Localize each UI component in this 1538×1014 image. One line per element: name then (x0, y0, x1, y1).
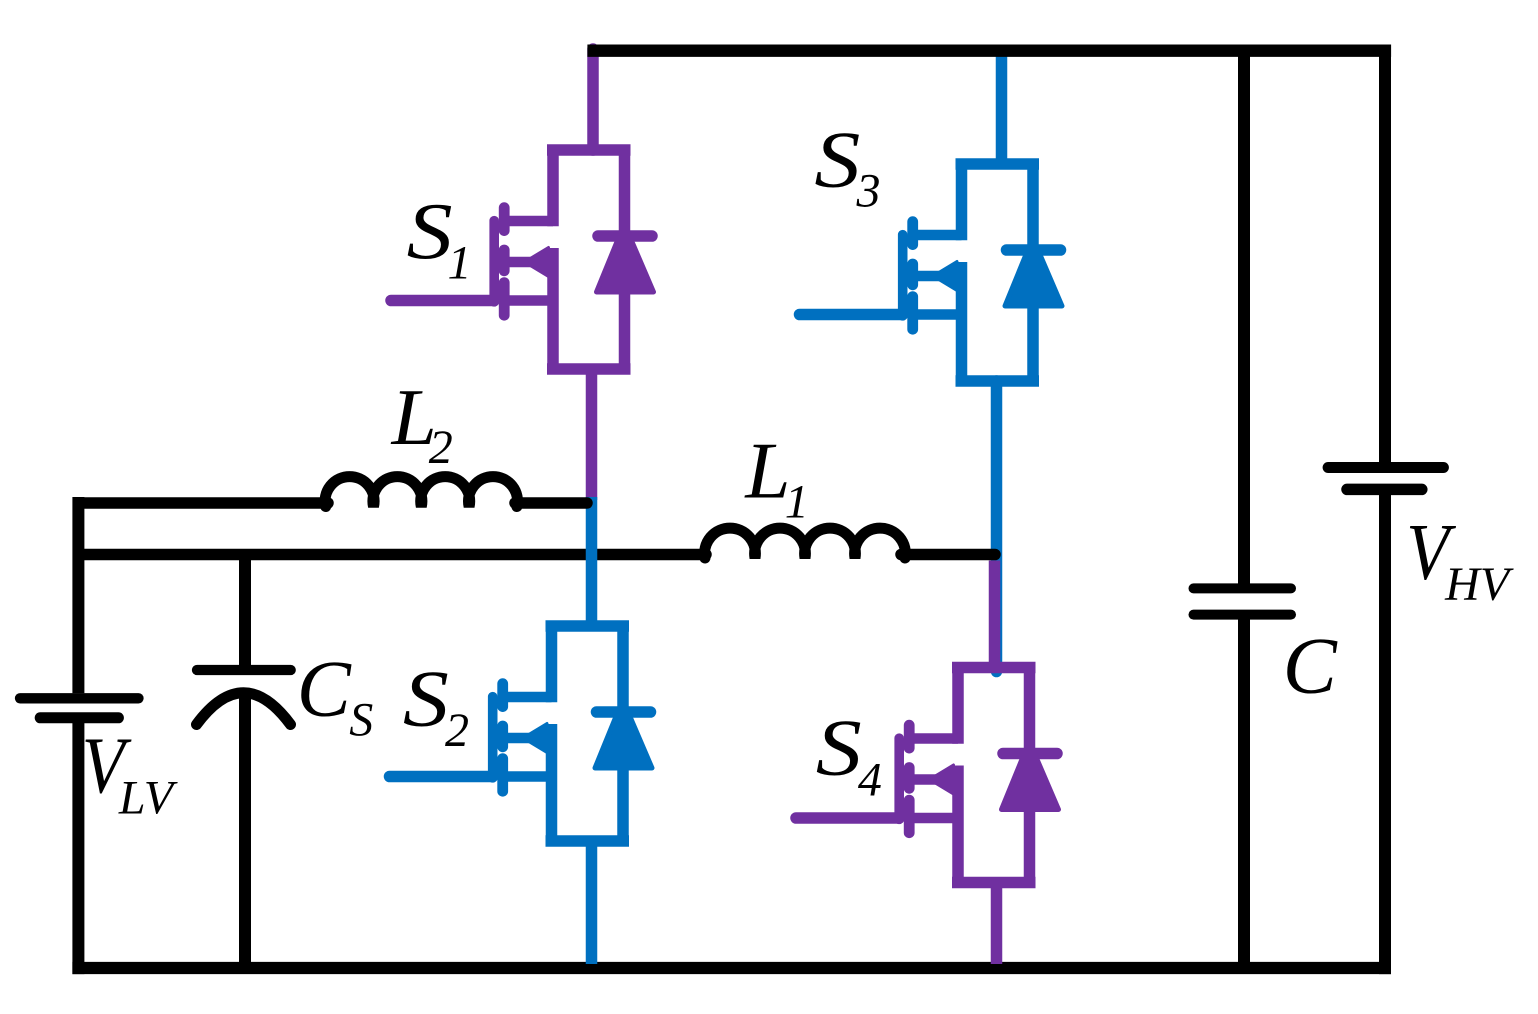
capacitor Cs curved plate (197, 693, 291, 725)
source lead (913, 309, 962, 319)
inductor L1 (705, 528, 906, 558)
channel stub B (907, 264, 918, 285)
channel stub A (904, 725, 915, 748)
diode branch vertical (1027, 163, 1039, 382)
source vertical (956, 262, 968, 382)
svg-text:S: S (814, 114, 860, 204)
wire node A to S2 drain (blue) (586, 497, 598, 626)
channel stub A (907, 222, 918, 245)
capacitor C plate 1 (1194, 583, 1292, 593)
wire capacitor C branch lower (1238, 615, 1250, 968)
wire top rail to S3 drain (blue) (996, 51, 1008, 164)
gate wire (390, 771, 493, 783)
top bar (956, 158, 1040, 170)
body arrow (913, 271, 960, 281)
body arrow (909, 774, 956, 784)
svg-text:1: 1 (448, 237, 472, 290)
gate bar (894, 738, 904, 819)
diode triangle (1002, 761, 1059, 810)
source lead (909, 813, 958, 823)
channel stub C (497, 759, 508, 792)
svg-text:2: 2 (429, 421, 453, 474)
transistor S2 (MOSFET with body diode) (390, 625, 653, 842)
top bar (952, 662, 1036, 674)
gate wire (800, 309, 903, 321)
diode cathode bar (1007, 244, 1061, 256)
gate bar (488, 697, 498, 778)
wire upper line (V_LV to L2) (78, 497, 328, 509)
wire top rail to S1 drain (purple) (587, 49, 599, 150)
body arrow (504, 257, 551, 267)
source vertical (952, 766, 964, 884)
wire S1 source to node A (purple) (586, 369, 598, 500)
svg-text:C: C (297, 644, 352, 734)
source vertical (546, 724, 558, 842)
transistor S4 (MOSFET with body diode) (796, 667, 1059, 884)
gate wire (391, 295, 494, 307)
svg-text:C: C (1283, 621, 1338, 711)
channel stub C (904, 800, 915, 833)
diode cathode bar (597, 706, 651, 718)
bottom rail (72, 962, 1391, 974)
channel stub B (904, 768, 915, 789)
diode triangle (595, 719, 652, 768)
svg-text:LV: LV (118, 771, 178, 824)
wire S4 source to bottom rail (purple) (991, 883, 1003, 965)
gate bar (898, 235, 908, 316)
diode branch vertical (617, 625, 629, 842)
top bar (547, 144, 631, 156)
source lead (503, 771, 552, 781)
channel stub B (497, 726, 508, 747)
battery V_LV long plate (20, 693, 139, 703)
wire node B to S4 drain (purple) (989, 561, 1001, 668)
transistor S3 (MOSFET with body diode) (800, 163, 1063, 382)
body arrow (503, 733, 550, 743)
drain vertical and lead (547, 149, 559, 226)
channel stub C (907, 297, 918, 330)
drain vertical and lead (952, 667, 964, 744)
channel stub B (499, 250, 510, 271)
svg-text:S: S (403, 653, 449, 743)
diode triangle (597, 243, 654, 292)
svg-text:HV: HV (1444, 558, 1514, 611)
diode branch vertical (619, 149, 631, 370)
svg-text:S: S (816, 703, 862, 793)
wire S2 source to bottom rail (blue) (586, 841, 598, 964)
svg-text:1: 1 (785, 476, 809, 529)
gate wire (796, 812, 899, 824)
capacitor C plate 2 (1194, 610, 1292, 620)
channel stub C (499, 283, 510, 316)
wire L2 to node A (515, 497, 587, 509)
wire S3 source to node B (blue, under L1 line) (991, 381, 1003, 672)
bottom bar (547, 363, 631, 375)
bottom bar (956, 375, 1040, 387)
diode cathode bar (598, 230, 652, 242)
diode triangle (1005, 257, 1062, 306)
svg-text:3: 3 (856, 165, 881, 218)
channel stub A (499, 208, 510, 231)
inductor L2 (325, 477, 517, 507)
bottom bar (952, 877, 1036, 889)
top rail (587, 45, 1391, 57)
diode branch vertical (1024, 667, 1036, 884)
svg-text:4: 4 (858, 754, 882, 807)
wire L1 to node B (901, 549, 995, 561)
transistor S1 (MOSFET with body diode) (391, 149, 654, 370)
source lead (504, 295, 553, 305)
right vertical wire (V_HV branch) (1379, 45, 1391, 975)
left vertical wire (V_LV branch) (72, 497, 84, 974)
battery V_HV short plate (1347, 484, 1422, 496)
wire capacitor C branch upper (1238, 51, 1250, 588)
top bar (546, 620, 630, 632)
drain vertical and lead (956, 163, 968, 240)
svg-text:S: S (407, 186, 453, 276)
wire Cs branch upper (239, 555, 251, 670)
wire lower line (V_LV to L1) (78, 549, 706, 561)
wire Cs branch lower (239, 694, 251, 968)
battery V_HV long plate (1328, 462, 1443, 473)
source vertical (547, 248, 559, 370)
diode cathode bar (1003, 748, 1057, 760)
bottom bar (546, 835, 630, 847)
svg-text:L: L (744, 426, 790, 516)
svg-text:S: S (349, 694, 373, 747)
capacitor Cs flat plate (197, 665, 291, 675)
svg-text:2: 2 (445, 704, 469, 757)
drain vertical and lead (546, 625, 558, 702)
channel stub A (497, 684, 508, 707)
gate bar (489, 221, 499, 302)
battery V_LV short plate (40, 712, 118, 723)
